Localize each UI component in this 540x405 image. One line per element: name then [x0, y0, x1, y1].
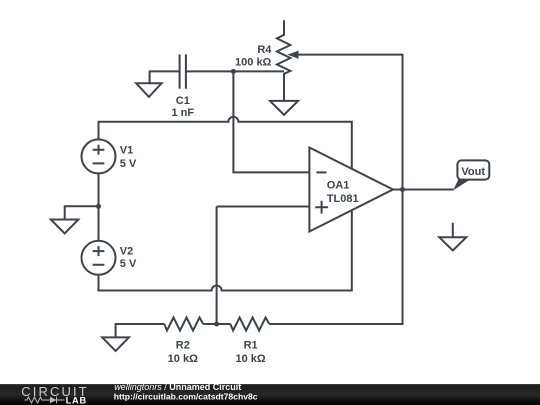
ground G3 (left of V1/V2) — [51, 220, 79, 234]
op-amp OA1 body — [309, 148, 393, 232]
svg-text:V1: V1 — [120, 145, 133, 157]
wire R4 wiper to feedback node B — [297, 55, 403, 190]
ground G1 (left of C1) — [136, 83, 161, 97]
svg-text:R2: R2 — [176, 340, 190, 352]
svg-text:http://circuitlab.com/catsdt78: http://circuitlab.com/catsdt78chv8c — [114, 392, 258, 402]
node C junction dot — [214, 322, 219, 327]
CircuitLab logo glyph (resistor + diode) — [25, 397, 65, 403]
svg-text:C1: C1 — [176, 95, 190, 107]
svg-text:5 V: 5 V — [120, 258, 137, 270]
svg-text:TL081: TL081 — [327, 193, 359, 205]
capacitor C1 — [180, 54, 186, 88]
svg-text:5 V: 5 V — [120, 158, 137, 170]
wire loop V1 top to V2 bottom (y=121.8 with hop, down x=351.8, back along y=290.5 with hop) — [99, 117, 352, 291]
svg-text:V2: V2 — [120, 246, 133, 258]
wire R2 to node C to R1 — [203, 323, 230, 325]
wire op-amp output to Vout — [393, 189, 454, 191]
voltage source V1 — [82, 139, 116, 173]
wire op-amp plus input from node C riser — [217, 207, 310, 325]
svg-text:R1: R1 — [244, 340, 258, 352]
resistor R4 (potentiometer body, vertical) — [277, 20, 291, 101]
svg-text:1 nF: 1 nF — [171, 107, 194, 119]
svg-text:Vout: Vout — [461, 166, 485, 178]
svg-text:10 kΩ: 10 kΩ — [235, 353, 265, 365]
wire C1 left plate to ground G1 — [150, 71, 180, 83]
voltage source V2 — [82, 241, 116, 275]
wire node D to ground G3 — [65, 206, 99, 219]
ground G4 (bottom left) — [102, 337, 129, 351]
R4 wiper arrow — [287, 51, 298, 59]
svg-text:10 kΩ: 10 kΩ — [168, 353, 198, 365]
node A junction dot — [231, 69, 236, 74]
wire V1 bottom to node D to V2 top — [98, 173, 100, 240]
resistor R1 — [230, 318, 269, 331]
svg-text:OA1: OA1 — [327, 179, 350, 191]
svg-text:100 kΩ: 100 kΩ — [235, 56, 272, 68]
wire node A down to op-amp minus input — [233, 71, 309, 172]
op-amp minus symbol — [316, 171, 326, 173]
resistor R2 — [164, 318, 203, 331]
ground G5 (below Vout, floating) — [439, 223, 466, 251]
svg-text:LAB: LAB — [66, 395, 87, 405]
wire bottom rail: ground G4 stub, to R2 — [116, 324, 165, 337]
svg-text:R4: R4 — [257, 44, 272, 56]
wire R1 right to feedback node B riser — [269, 190, 402, 325]
op-amp plus symbol — [315, 201, 328, 214]
Vout flag — [453, 179, 471, 190]
wire C1 to node A to R4 (y=71.4) — [186, 70, 284, 72]
ground G2 (below R4) — [270, 101, 298, 115]
svg-text:wellingtonrs / Unnamed Circuit: wellingtonrs / Unnamed Circuit — [114, 382, 241, 392]
node D junction dot — [96, 204, 101, 209]
node B junction dot — [400, 187, 405, 192]
